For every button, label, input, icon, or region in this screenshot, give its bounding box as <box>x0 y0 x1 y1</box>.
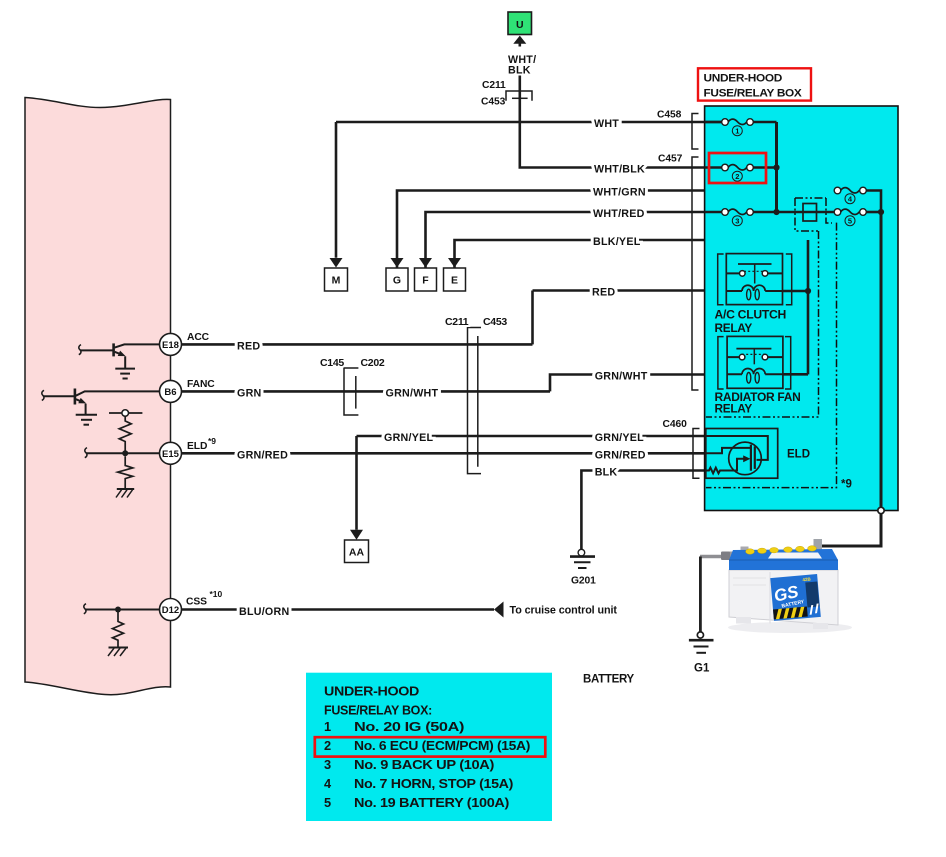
resistor R2 (pull-down) <box>118 456 133 488</box>
legend box (cyan) <box>306 673 552 821</box>
fuse 3 (No.9 BACK UP) <box>705 209 835 226</box>
svg-text:No. 9 BACK UP (10A): No. 9 BACK UP (10A) <box>354 757 494 772</box>
connector C457 bracket <box>658 154 699 391</box>
node fuse2 junction <box>773 164 779 170</box>
svg-text:C458: C458 <box>657 109 682 120</box>
svg-text:No. 6 ECU (ECM/PCM) (15A): No. 6 ECU (ECM/PCM) (15A) <box>354 738 530 753</box>
svg-text:C460: C460 <box>663 419 688 430</box>
wire battery positive feed <box>821 514 881 546</box>
relay: A/C CLUTCH RELAY <box>715 254 809 335</box>
label box UNDER-HOOD FUSE/RELAY BOX <box>698 68 811 100</box>
svg-text:WHT: WHT <box>594 118 619 130</box>
svg-text:2: 2 <box>324 738 331 753</box>
node: E15 junction <box>122 450 128 456</box>
ground G1 <box>689 632 714 675</box>
wire RED row to relay <box>533 287 727 299</box>
svg-text:2: 2 <box>735 172 739 181</box>
ground G201 <box>570 549 596 586</box>
pin B6 <box>160 379 216 402</box>
svg-text:GRN/WHT: GRN/WHT <box>386 388 439 400</box>
connector C211/C453 (top, on U line) <box>481 80 532 108</box>
ECM/PCM module (pink, torn edges) <box>25 98 171 695</box>
svg-text:*9: *9 <box>841 478 852 490</box>
wire fuse1 out, vertical junction bus <box>775 122 778 212</box>
UNDER-HOOD FUSE/RELAY BOX (cyan) <box>705 106 898 511</box>
wire GRN/WHT riser and row to relay box <box>550 371 727 392</box>
connector C211/C453 (inline, tall) <box>445 316 507 474</box>
wire CSS (BLU/ORN) to cruise control <box>182 602 617 618</box>
svg-text:No. 20 IG (50A): No. 20 IG (50A) <box>354 719 464 734</box>
wire BLK to G201 <box>581 467 705 550</box>
ground (E18 emitter) <box>115 369 135 379</box>
svg-text:ACC: ACC <box>187 332 210 343</box>
wire to AA (GRN/YEL branch) <box>355 436 358 530</box>
svg-text:No. 7 HORN, STOP (15A): No. 7 HORN, STOP (15A) <box>354 776 513 791</box>
svg-text:RED: RED <box>592 287 615 299</box>
fuse 1 (No.20 IG 50A) <box>705 119 777 136</box>
wire GRN/RED row (E15 to C460) <box>182 450 706 462</box>
wire (E15 internal row) <box>85 448 160 458</box>
connector C145/C202 <box>320 357 385 415</box>
node: internal supply (E15 pull-up) <box>109 410 142 417</box>
node battery terminal on box edge <box>878 507 884 513</box>
wire M riser (WHT) <box>335 122 338 258</box>
node A/C relay coil junction <box>805 288 811 294</box>
svg-text:GRN/YEL: GRN/YEL <box>384 432 433 444</box>
fuse 2 (No.6 ECU) <box>705 164 777 181</box>
svg-text:5: 5 <box>324 795 331 810</box>
svg-text:UNDER-HOOD: UNDER-HOOD <box>704 73 783 85</box>
wire BLK/YEL vertical to relays <box>807 240 810 374</box>
svg-text:1: 1 <box>735 126 739 135</box>
svg-text:ELD: ELD <box>787 449 810 461</box>
svg-text:A/C CLUTCH: A/C CLUTCH <box>715 308 787 322</box>
svg-text:BLK/YEL: BLK/YEL <box>593 236 641 248</box>
svg-text:C145: C145 <box>320 357 344 369</box>
svg-text:RELAY: RELAY <box>715 401 753 415</box>
svg-text:E15: E15 <box>162 449 180 460</box>
wire riser to RED row <box>531 291 534 345</box>
connector AA <box>345 540 369 563</box>
svg-text:No. 19 BATTERY (100A): No. 19 BATTERY (100A) <box>354 795 509 810</box>
svg-text:4: 4 <box>324 776 332 791</box>
svg-text:G201: G201 <box>571 576 596 587</box>
connector U (green box) <box>508 12 536 77</box>
svg-text:BLK: BLK <box>595 467 618 479</box>
highlight box (red) around fuse 2 <box>709 153 766 183</box>
pin E18 <box>160 332 210 355</box>
wire ACC (RED) E18 to riser <box>182 340 533 352</box>
svg-text:GRN/YEL: GRN/YEL <box>595 432 644 444</box>
svg-text:C211: C211 <box>482 80 506 91</box>
svg-text:BLU/ORN: BLU/ORN <box>239 606 289 618</box>
svg-text:3: 3 <box>324 757 331 772</box>
dash-dot enclosure (relays, other unit) <box>706 231 819 417</box>
svg-text:FUSE/RELAY BOX: FUSE/RELAY BOX <box>704 88 803 100</box>
svg-text:G: G <box>393 275 401 287</box>
svg-text:E18: E18 <box>162 340 179 351</box>
svg-text:BATTERY: BATTERY <box>583 674 635 686</box>
svg-text:*10: *10 <box>210 589 223 599</box>
svg-text:1: 1 <box>324 719 331 734</box>
relay: RADIATOR FAN RELAY <box>715 336 809 415</box>
svg-text:GRN/RED: GRN/RED <box>595 450 646 462</box>
connector F <box>415 268 437 291</box>
svg-text:3: 3 <box>735 216 739 225</box>
svg-text:RED: RED <box>237 340 260 352</box>
svg-text:M: M <box>332 275 341 287</box>
ground (hatched, D12) <box>108 648 128 657</box>
connector G <box>386 268 408 291</box>
highlight box (red) legend item 2 <box>315 737 546 756</box>
wire battery bus down <box>880 212 883 509</box>
dash-dot enclosure (ELD, *9) <box>706 223 852 491</box>
svg-text:WHT/GRN: WHT/GRN <box>593 187 646 199</box>
svg-text:WHT/RED: WHT/RED <box>593 208 645 220</box>
pin D12 <box>160 589 223 621</box>
wire FANC (GRN / GRN-WHT) <box>182 388 551 400</box>
svg-text:5: 5 <box>848 216 852 225</box>
ELD unit <box>706 429 810 479</box>
connector C458 bracket <box>657 109 699 149</box>
svg-text:E: E <box>451 275 458 287</box>
svg-text:ELD: ELD <box>187 441 207 452</box>
ground (B6 emitter) <box>76 415 97 425</box>
wire BLK/YEL row <box>455 236 809 268</box>
svg-text:FUSE/RELAY BOX:: FUSE/RELAY BOX: <box>324 703 432 718</box>
node fuse5/battery junction <box>878 209 884 215</box>
svg-text:CSS: CSS <box>186 597 207 608</box>
svg-text:42B: 42B <box>802 577 811 583</box>
svg-text:F: F <box>422 275 429 287</box>
wire WHT into box <box>705 121 722 124</box>
fuse 4 (No.7 HORN STOP) <box>834 187 881 212</box>
svg-text:To cruise control unit: To cruise control unit <box>510 605 618 617</box>
svg-text:C453: C453 <box>481 97 506 108</box>
svg-text:GRN: GRN <box>237 388 262 400</box>
node fuse3 junction <box>773 209 779 215</box>
transistor Q2 (FANC driver) <box>42 389 160 415</box>
svg-text:UNDER-HOOD: UNDER-HOOD <box>324 684 419 699</box>
svg-text:*9: *9 <box>208 436 216 446</box>
svg-text:WHT/BLK: WHT/BLK <box>594 164 645 176</box>
connector C460 bracket <box>663 419 700 478</box>
fuse 5 (No.19 BATTERY) <box>834 209 881 226</box>
dashed component box (on fuse5 feed) <box>795 198 832 231</box>
svg-text:GRN/WHT: GRN/WHT <box>595 371 648 383</box>
svg-text:BLK: BLK <box>508 65 531 77</box>
svg-text:U: U <box>516 19 524 31</box>
svg-text:GRN/RED: GRN/RED <box>237 450 288 462</box>
svg-text:G1: G1 <box>694 663 710 675</box>
pin E15 <box>160 436 217 464</box>
ground (hatched, E15) <box>116 489 134 498</box>
wire battery negative to G1 <box>699 557 702 632</box>
svg-text:C457: C457 <box>658 154 683 165</box>
connector M <box>325 268 348 291</box>
wire WHT/RED row <box>426 208 723 268</box>
resistor R3 (CSS pull-down) <box>84 604 160 647</box>
svg-text:C211: C211 <box>445 316 469 328</box>
svg-text:RELAY: RELAY <box>715 321 753 335</box>
wire WHT/GRN row <box>397 187 835 268</box>
transistor Q1 (ACC driver) <box>79 343 160 368</box>
wire U line (WHT/BLK) down to row <box>520 44 722 168</box>
svg-text:C453: C453 <box>483 316 507 328</box>
svg-text:B6: B6 <box>164 387 176 398</box>
svg-text:D12: D12 <box>162 605 179 616</box>
connector E <box>444 268 466 291</box>
wire WHT row <box>336 118 722 130</box>
svg-text:AA: AA <box>349 547 365 559</box>
svg-text:FANC: FANC <box>187 379 215 390</box>
resistor R1 (pull-up) <box>119 416 131 450</box>
svg-text:C202: C202 <box>361 357 385 369</box>
battery (GS) illustration <box>700 539 852 633</box>
wire GRN/YEL row <box>357 432 706 444</box>
